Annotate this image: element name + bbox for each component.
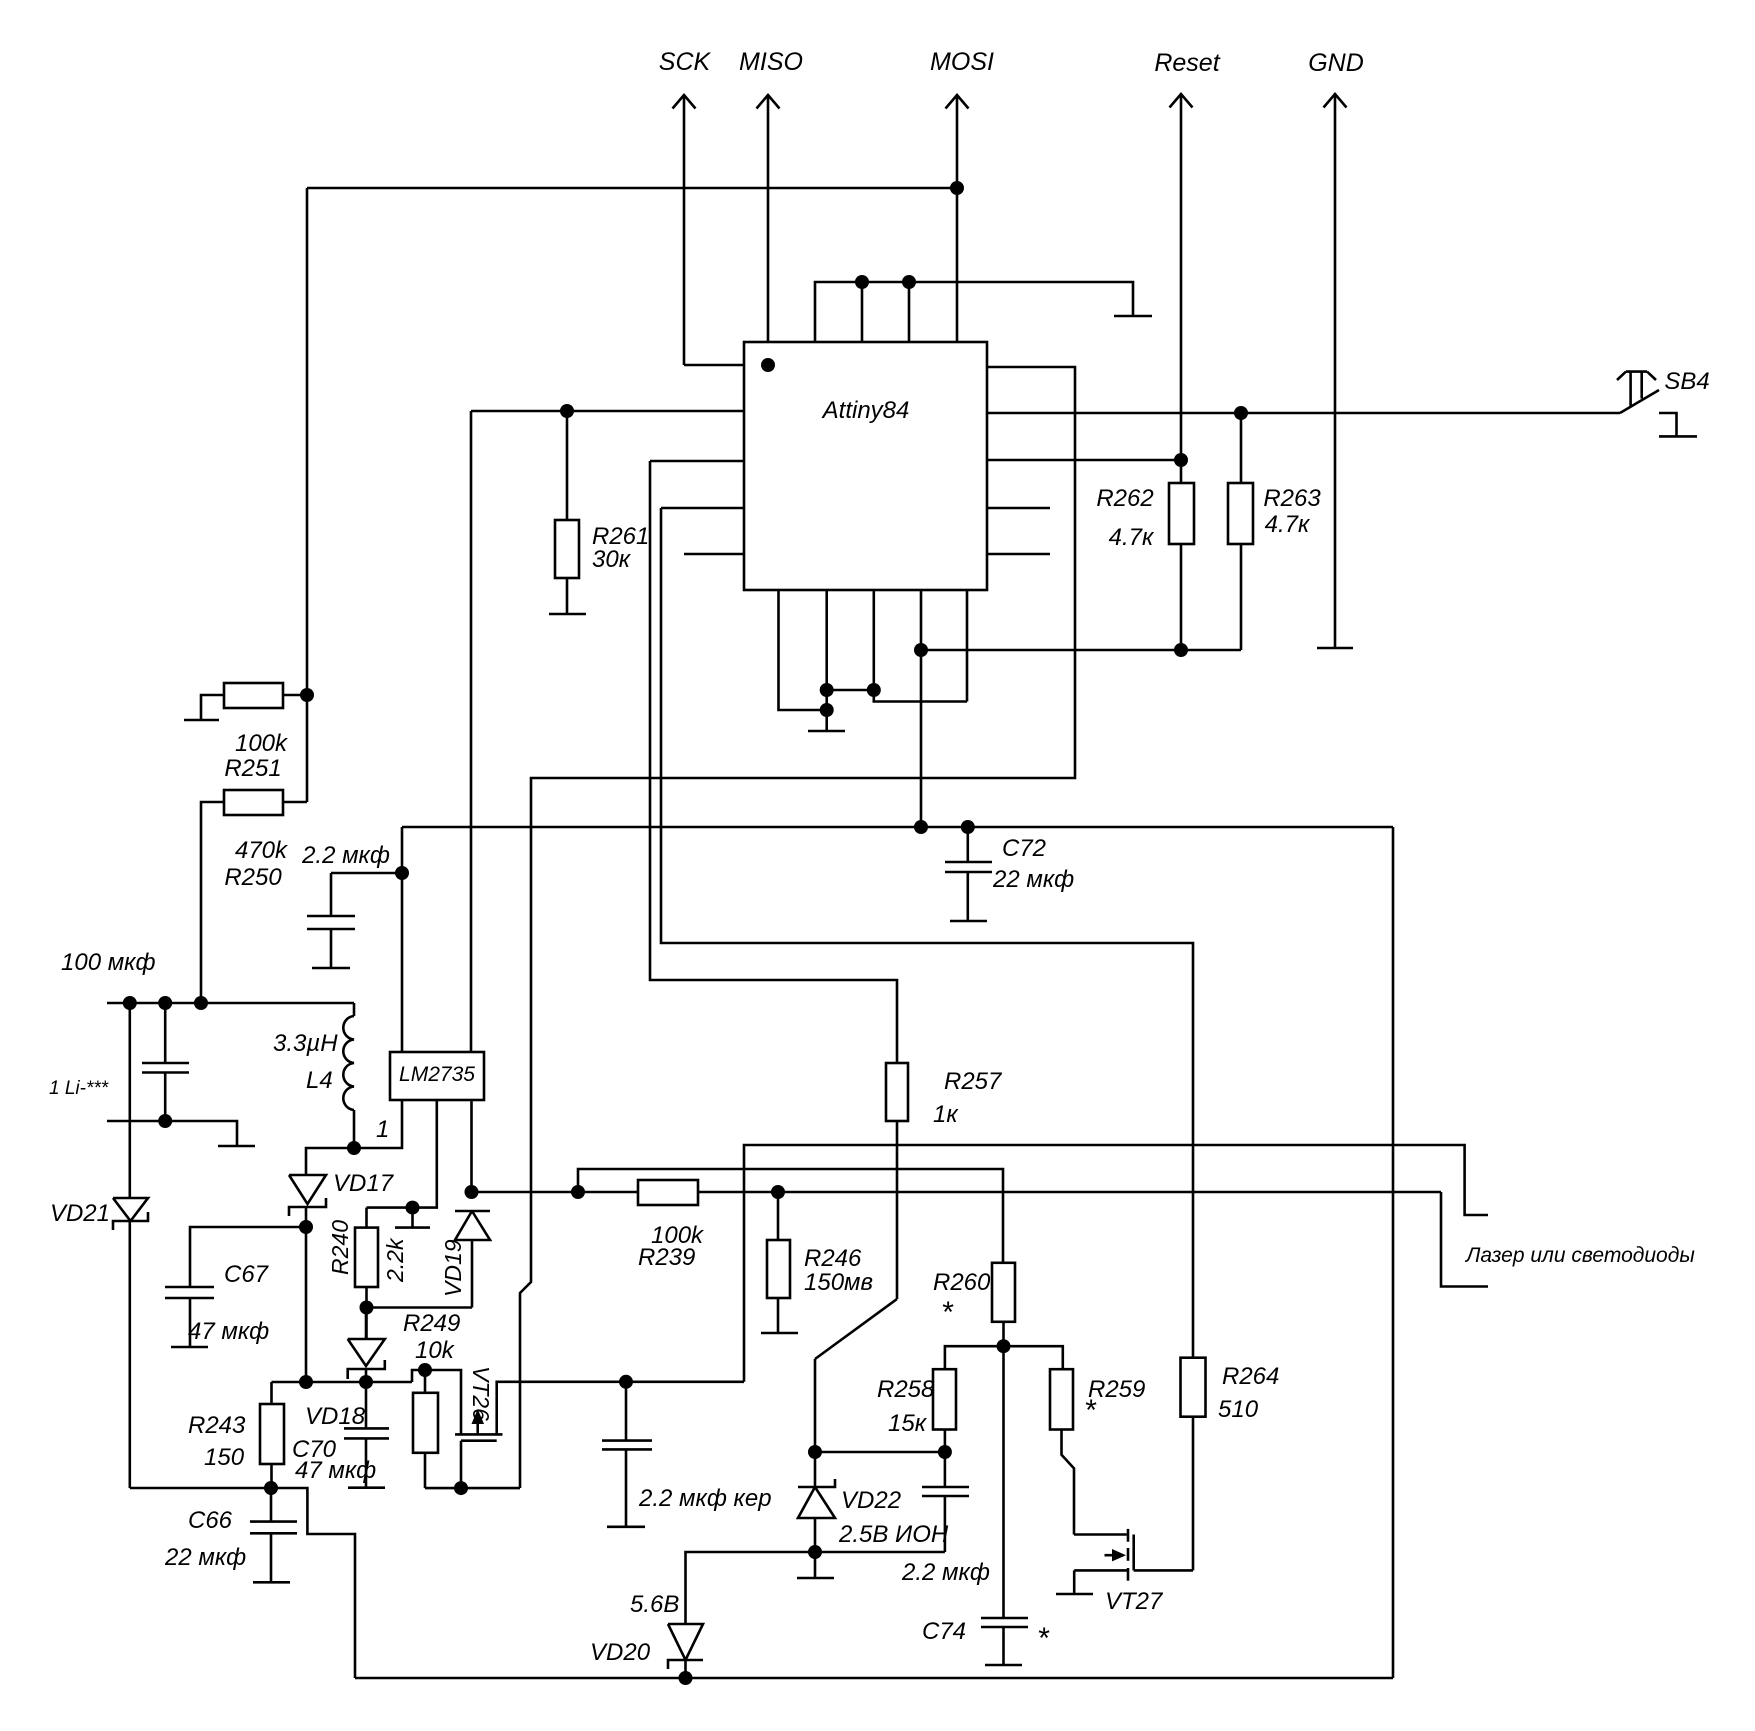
svg-text:R246: R246	[804, 1245, 862, 1272]
node R246 tap	[771, 1185, 785, 1199]
wire battery plus y=1003	[107, 1002, 354, 1005]
svg-text:2.2 мкф кер: 2.2 мкф кер	[638, 1485, 772, 1512]
wire IC bottom pin x=921	[920, 590, 923, 827]
node VD22 top	[808, 1445, 822, 1459]
ground 2.2uF ceramic	[607, 1526, 645, 1529]
svg-text:150мв: 150мв	[804, 1269, 873, 1296]
capacitor C74	[922, 1618, 1050, 1665]
node R258/R259/C74	[997, 1339, 1011, 1353]
node C72 tap	[961, 820, 975, 834]
pushbutton SB4	[1617, 368, 1710, 436]
resistor R260	[933, 1263, 1015, 1346]
ground C66	[253, 1581, 290, 1584]
svg-text:C72: C72	[1002, 835, 1046, 862]
node 2.2uF tap	[395, 866, 409, 880]
IC U2 LM2735	[390, 1052, 484, 1100]
wire R240 bottom to VD19 anode	[367, 1306, 473, 1309]
net arrow Reset	[1154, 49, 1220, 460]
svg-text:22 мкф: 22 мкф	[164, 1544, 246, 1571]
svg-text:510: 510	[1218, 1396, 1259, 1423]
diode VD18	[305, 1308, 385, 1431]
resistor R239	[638, 1180, 1441, 1271]
svg-text:5.6В: 5.6В	[630, 1591, 679, 1618]
svg-text:GND: GND	[1308, 49, 1364, 77]
svg-text:*: *	[941, 1296, 954, 1329]
wire drain up and to laser upper	[744, 1145, 1488, 1382]
terminal bar top bus	[1114, 315, 1152, 318]
capacitor C72	[945, 827, 1074, 921]
svg-text:R249: R249	[403, 1310, 460, 1337]
ground IC pin	[808, 730, 845, 733]
wire VD22 anode net	[686, 1552, 945, 1624]
wire x=650 down to R257	[650, 461, 897, 1063]
svg-text:R250: R250	[224, 864, 282, 891]
wire feedback to R239	[472, 1191, 639, 1194]
svg-text:470k: 470k	[235, 837, 289, 864]
svg-text:R258: R258	[877, 1376, 935, 1403]
ground battery minus	[218, 1145, 255, 1148]
svg-text:R264: R264	[1222, 1363, 1279, 1390]
node VD18 bottom / C70	[359, 1375, 373, 1389]
wire node to VD17	[306, 1148, 354, 1175]
svg-text:3.3µH: 3.3µH	[273, 1030, 338, 1057]
svg-text:2.5В ИОН: 2.5В ИОН	[838, 1521, 949, 1548]
node ground tap	[406, 1201, 420, 1215]
svg-text:100k: 100k	[235, 730, 289, 757]
node bus pin3	[902, 275, 916, 289]
svg-text:C66: C66	[188, 1507, 233, 1534]
wire VCC rail y=827	[402, 826, 1393, 829]
capacitor 2.2uF reference	[901, 1452, 990, 1586]
svg-text:VD18: VD18	[305, 1403, 366, 1430]
node 826/690	[820, 683, 834, 697]
svg-text:VT26: VT26	[468, 1366, 494, 1421]
node C66/R243	[264, 1481, 278, 1495]
resistor R250	[201, 790, 307, 1003]
svg-text:*: *	[1084, 1394, 1097, 1427]
resistor R261	[555, 411, 649, 614]
wire IC bottom pin x=873	[874, 590, 967, 702]
svg-text:Лазер или светодиоды: Лазер или светодиоды	[1464, 1244, 1695, 1267]
wire battery minus staircase from C66 node	[271, 1488, 355, 1678]
svg-text:SCK: SCK	[659, 48, 712, 76]
inductor L4	[273, 1003, 354, 1148]
svg-text:Attiny84: Attiny84	[821, 397, 910, 424]
resistor R262	[1096, 460, 1194, 650]
resistor R263	[1228, 413, 1321, 650]
wire x=661 down right to R264 branch	[661, 508, 1193, 1358]
node C top	[938, 1445, 952, 1459]
diode VD21	[50, 1003, 148, 1488]
node R250 tap	[194, 996, 208, 1010]
svg-text:C67: C67	[224, 1261, 270, 1288]
wire top bus y=188	[307, 187, 957, 190]
svg-text:47 мкф: 47 мкф	[188, 1318, 269, 1345]
svg-text:1к: 1к	[933, 1101, 959, 1128]
node R249/VT26 gate	[418, 1363, 432, 1377]
wire IC left pin y=461	[650, 460, 744, 463]
wire main node y=1382 left segment	[272, 1381, 413, 1384]
svg-text:R262: R262	[1096, 485, 1153, 512]
node 100uF tap	[158, 996, 172, 1010]
node R261 tap	[560, 404, 574, 418]
svg-text:VD21: VD21	[50, 1200, 110, 1227]
node 826/710	[820, 703, 834, 717]
svg-text:2.2 мкф: 2.2 мкф	[301, 842, 390, 869]
resistor R251	[201, 683, 307, 782]
wire to 2.2uF cap	[331, 872, 402, 875]
svg-text:R257: R257	[944, 1068, 1003, 1095]
wire SCK to IC pin	[684, 364, 744, 367]
wire IC top pins bus y=282	[815, 282, 1133, 342]
wire IC right pin y=367 long loop to VT26 area	[520, 367, 1075, 1488]
node L4/VD17/LM2735	[347, 1141, 361, 1155]
wire IC bottom pin x=967	[966, 590, 969, 702]
pin 1 marker dot	[761, 358, 775, 372]
wire x=1393 down to bottom rail	[1392, 827, 1395, 1678]
diode VD19	[440, 1211, 490, 1308]
svg-text:15к: 15к	[888, 1410, 928, 1437]
node VD22 bottom	[808, 1545, 822, 1559]
wire IC right pin y=460	[987, 459, 1181, 462]
ground R246	[761, 1332, 798, 1335]
wire R239 upper branch to R260	[578, 1169, 1003, 1263]
capacitor C70	[292, 1382, 389, 1488]
node bus pin2	[855, 275, 869, 289]
node R251/R250	[300, 688, 314, 702]
node VD19 cathode / feedback	[465, 1185, 479, 1199]
svg-text:4.7к: 4.7к	[1265, 511, 1311, 538]
ground GND	[1317, 647, 1353, 650]
terminal bar C74	[985, 1664, 1022, 1667]
wire bottom rail	[355, 1677, 1393, 1680]
wire feedback vertical x=471 to LM2735	[470, 411, 473, 1052]
diode VD20 zener 5.6V	[590, 1591, 703, 1678]
svg-text:10k: 10k	[415, 1337, 456, 1364]
resistor R240	[327, 1208, 408, 1339]
ground VT27 source	[1056, 1593, 1093, 1596]
svg-text:4.7к: 4.7к	[1109, 524, 1155, 551]
net arrow SCK	[659, 48, 712, 365]
node pin/650	[914, 643, 928, 657]
ground C72	[950, 920, 987, 923]
node VD21 tap	[123, 996, 137, 1010]
wire 690 link	[827, 689, 874, 692]
svg-text:MISO: MISO	[739, 48, 803, 76]
capacitor C66	[164, 1488, 297, 1582]
ground R261	[549, 613, 586, 616]
svg-text:SB4: SB4	[1664, 368, 1709, 395]
svg-text:L4: L4	[306, 1067, 333, 1094]
svg-text:VD17: VD17	[333, 1170, 395, 1197]
wire IC left pin y=508	[661, 507, 744, 510]
svg-text:22 мкф: 22 мкф	[992, 866, 1074, 893]
wire gate link	[425, 1370, 461, 1434]
svg-text:VD22: VD22	[841, 1487, 901, 1514]
svg-text:LM2735: LM2735	[399, 1063, 475, 1086]
wire IC right pin y=413 to SB4	[987, 412, 1620, 415]
wire battery minus y=1121	[107, 1121, 237, 1146]
ground 2.2uF	[312, 967, 350, 970]
wire LM2735 FB pin down	[470, 1100, 473, 1192]
net arrow MOSI	[930, 48, 994, 342]
wire VD22 to C 2.2uF ion	[815, 1451, 945, 1454]
resistor R259	[1050, 1369, 1145, 1534]
diode VD17	[289, 1170, 395, 1382]
svg-text:R240: R240	[327, 1220, 353, 1275]
node R262 bottom	[1174, 643, 1188, 657]
net arrow GND	[1308, 49, 1364, 648]
node 2.2uF ker tap	[619, 1375, 633, 1389]
wire IC bottom pin x=778	[779, 590, 827, 710]
wire node to R259	[1004, 1346, 1063, 1369]
wire IC left stub y=554	[684, 553, 744, 556]
wire node down to C74	[1002, 1346, 1005, 1618]
node 921/827	[914, 820, 928, 834]
ground R251	[184, 719, 219, 722]
wire vertical x=307	[306, 188, 309, 802]
IC U1 Attiny84	[744, 342, 987, 590]
ground C67	[171, 1346, 208, 1349]
wire VD21 to C66 node	[130, 1487, 271, 1490]
wire R262/R263 bottoms y=650	[921, 649, 1241, 652]
wire R257 diagonal to VD22	[815, 1299, 897, 1452]
node R240 bottom / VD19	[360, 1301, 374, 1315]
resistor R249	[403, 1310, 460, 1488]
wire node to R258	[945, 1346, 1004, 1369]
resistor R264	[1181, 1358, 1280, 1571]
node 100uF bottom	[158, 1114, 172, 1128]
svg-text:C74: C74	[922, 1618, 966, 1645]
node VT26 source	[454, 1481, 468, 1495]
transistor VT26	[455, 1366, 744, 1488]
resistor R246	[767, 1192, 873, 1333]
node Reset/R262	[1174, 453, 1188, 467]
wire IC right stub y=508	[987, 507, 1050, 510]
node MOSI junction	[950, 181, 964, 195]
capacitor 2.2uF ceramic	[602, 1382, 772, 1527]
svg-text:2.2k: 2.2k	[382, 1237, 408, 1283]
svg-text:R260: R260	[933, 1269, 991, 1296]
svg-text:VD20: VD20	[590, 1639, 651, 1666]
capacitor 2.2uF input	[301, 842, 390, 968]
capacitor C 100uF	[142, 1003, 189, 1121]
svg-text:R263: R263	[1263, 485, 1321, 512]
node R263 tap	[1234, 406, 1248, 420]
node C67 tap	[299, 1220, 313, 1234]
ground VD22	[797, 1552, 834, 1578]
transistor VT27	[1074, 1529, 1193, 1615]
svg-text:VT27: VT27	[1105, 1588, 1164, 1615]
node VD17 bottom	[299, 1375, 313, 1389]
svg-text:R259: R259	[1088, 1376, 1145, 1403]
wire R249 gate step	[412, 1370, 425, 1382]
wire IC bottom pin x=826 to ground	[825, 590, 828, 731]
svg-text:*: *	[1037, 1622, 1050, 1655]
wire x=402 VCC to LM2735	[401, 827, 404, 1052]
wire laser output lower	[1441, 1192, 1488, 1287]
diode VD22 zener	[798, 1452, 949, 1552]
node 873/690	[867, 683, 881, 697]
wire IC left pin y=411	[471, 410, 744, 413]
wire source rail	[425, 1487, 520, 1490]
ground C70	[348, 1486, 385, 1489]
ground LM2735 pin	[395, 1208, 430, 1228]
node VD20 bottom rail	[679, 1671, 693, 1685]
resistor R243	[188, 1382, 284, 1488]
node R239 left tap	[571, 1185, 585, 1199]
svg-text:R243: R243	[188, 1412, 246, 1439]
wire node to LM2735 pin1	[354, 1100, 402, 1148]
capacitor C67	[165, 1227, 306, 1347]
svg-text:1 Li-***: 1 Li-***	[49, 1078, 109, 1099]
svg-text:2.2 мкф: 2.2 мкф	[901, 1559, 990, 1586]
svg-text:100 мкф: 100 мкф	[61, 949, 156, 976]
svg-text:150: 150	[204, 1444, 245, 1471]
svg-text:47 мкф: 47 мкф	[295, 1457, 376, 1484]
net arrow MISO	[739, 48, 803, 342]
svg-text:Reset: Reset	[1154, 49, 1220, 77]
svg-text:MOSI: MOSI	[930, 48, 994, 76]
resistor R258	[877, 1369, 956, 1452]
svg-text:VD19: VD19	[440, 1239, 466, 1297]
wire IC right stub y=554	[987, 553, 1050, 556]
svg-text:R251: R251	[224, 755, 281, 782]
svg-text:30к: 30к	[592, 546, 632, 573]
svg-text:R239: R239	[638, 1244, 695, 1271]
svg-text:1: 1	[376, 1116, 389, 1143]
wire LM2735 pin to R240/ground	[367, 1100, 437, 1208]
resistor R257	[886, 1063, 1003, 1299]
